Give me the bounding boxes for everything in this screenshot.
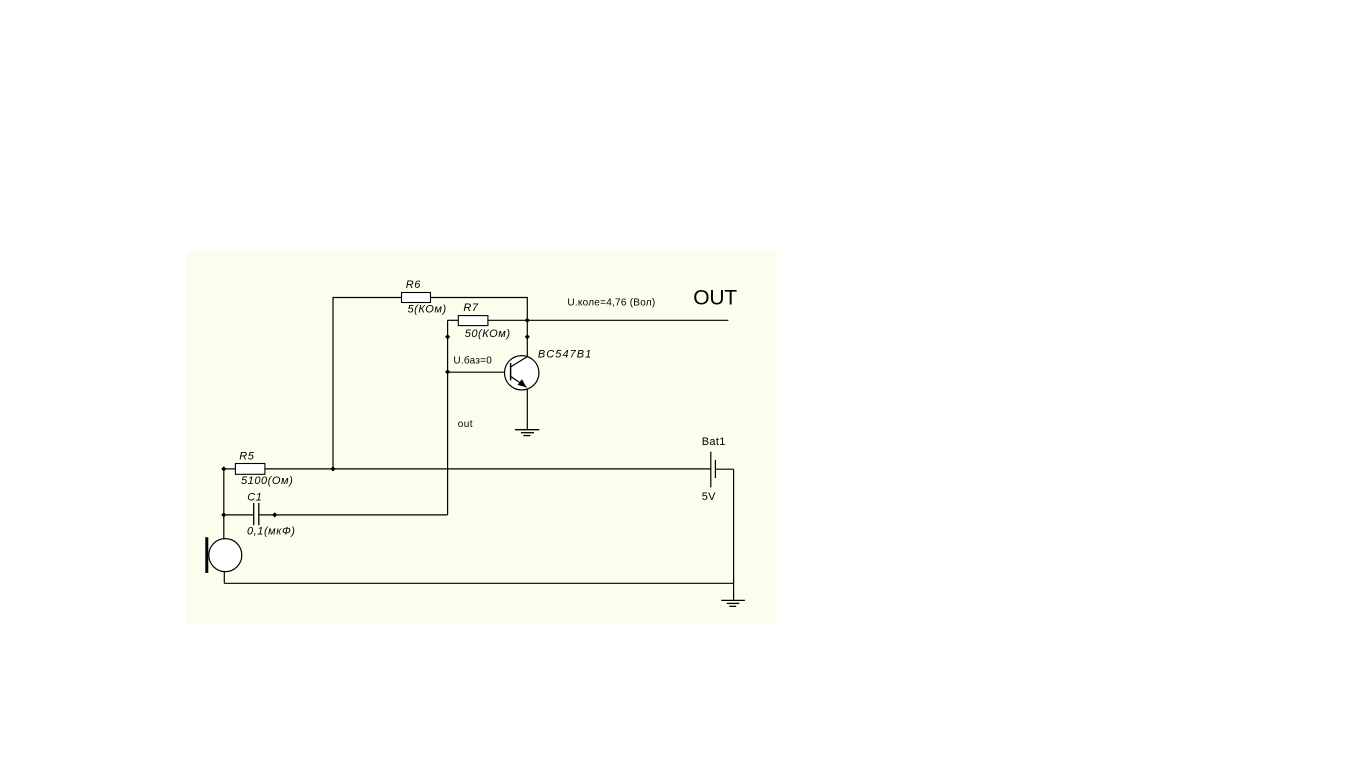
junction node below R7 right xyxy=(525,334,530,339)
svg-text:U.баз=0: U.баз=0 xyxy=(453,355,492,367)
svg-text:5V: 5V xyxy=(702,491,716,503)
wire: battery right lead xyxy=(715,468,733,470)
svg-text:0,1(мкФ): 0,1(мкФ) xyxy=(247,526,296,538)
schematic canvas panel xyxy=(186,251,776,624)
svg-text:Bat1: Bat1 xyxy=(702,436,726,448)
transistor emitter diagonal xyxy=(511,377,527,388)
wire: base lead xyxy=(448,371,511,373)
transistor emitter arrow xyxy=(518,379,527,387)
wire: base drop column xyxy=(447,320,449,515)
svg-text:out: out xyxy=(458,419,473,430)
wire: left column R5 to C1 to mic xyxy=(223,469,225,539)
junction node C1 right xyxy=(272,512,277,517)
resistor R6 xyxy=(402,293,431,303)
junction node below R7 left xyxy=(445,334,450,339)
svg-text:BC547B1: BC547B1 xyxy=(538,349,592,361)
wire: emitter down lead xyxy=(526,389,528,430)
wire: R7 left stub xyxy=(448,319,459,321)
wire: mic bottom lead xyxy=(223,572,225,584)
wire: C1 right lead xyxy=(259,514,447,516)
microphone M1 body xyxy=(209,539,242,572)
wire: R5 left stub xyxy=(224,468,236,470)
svg-text:R5: R5 xyxy=(239,451,254,463)
wire: OUT line xyxy=(488,319,729,321)
transistor base bar xyxy=(510,363,512,381)
wire: collector riser into body xyxy=(526,320,528,356)
transistor collector diagonal xyxy=(511,357,527,367)
battery Bat1 plates xyxy=(711,452,716,488)
wire: top rail from R6 right to collector corner xyxy=(431,298,528,321)
ground bottom right xyxy=(721,600,745,606)
capacitor C1 plates xyxy=(254,503,259,525)
svg-text:5(КОм): 5(КОм) xyxy=(408,304,447,316)
wire: R5 to battery rail xyxy=(265,468,711,470)
wire: left vertical from top rail to R5 rail xyxy=(333,298,402,469)
wire: bottom ground rail xyxy=(224,582,733,584)
svg-text:R6: R6 xyxy=(406,279,421,291)
junction node at base xyxy=(445,369,450,374)
transistor Q1 BC547B1 body xyxy=(505,356,539,390)
svg-text:OUT: OUT xyxy=(693,286,737,309)
junction node C1 left xyxy=(221,512,226,517)
resistor R7 xyxy=(458,316,488,326)
junction node mid rail xyxy=(330,466,335,471)
junction node R5 left xyxy=(221,466,226,471)
ground under transistor xyxy=(515,430,539,436)
wire: C1 left lead xyxy=(224,514,254,516)
svg-text:C1: C1 xyxy=(247,491,262,503)
svg-text:R7: R7 xyxy=(463,302,478,314)
wire: right vertical to ground xyxy=(733,469,735,600)
svg-text:5100(Ом): 5100(Ом) xyxy=(241,475,293,487)
svg-text:50(КОм): 50(КОм) xyxy=(465,328,511,340)
resistor R5 xyxy=(235,464,265,475)
junction node at R7 right / collector xyxy=(525,318,530,323)
microphone side bar xyxy=(205,537,208,573)
svg-text:U.коле=4,76 (Вол): U.коле=4,76 (Вол) xyxy=(567,298,655,309)
